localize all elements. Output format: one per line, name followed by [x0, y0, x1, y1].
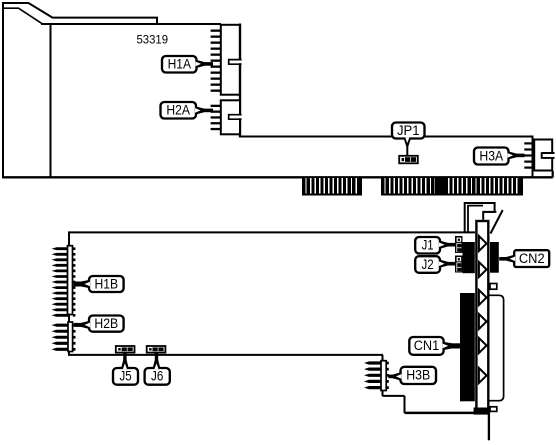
svg-text:CN2: CN2 [519, 251, 545, 266]
balloon J5 [113, 352, 138, 384]
top mounting tab [490, 284, 497, 290]
balloon H2B [74, 316, 124, 332]
balloon JP1 [392, 123, 425, 157]
connector H1A box [221, 24, 243, 138]
card edge fingers group 1 [302, 178, 362, 196]
balloon J2 [415, 256, 456, 273]
connector H3A box [534, 140, 555, 178]
svg-text:H2B: H2B [94, 316, 118, 331]
H3B pins [364, 361, 389, 389]
balloon H1A [162, 56, 213, 73]
balloon H1B [74, 276, 124, 292]
balloon CN2 [499, 250, 549, 267]
CN1 connector body [460, 293, 475, 401]
connector H2B body [68, 322, 73, 352]
connector H3B body [381, 361, 386, 391]
header J1 (3-pin with shunt) [455, 236, 463, 253]
bracket top tab [465, 203, 497, 233]
H1A pins [211, 30, 221, 92]
svg-text:J2: J2 [422, 257, 434, 272]
bracket column bottom bar [474, 408, 491, 415]
bracket cutout triangles [479, 236, 487, 383]
lower board outline [68, 232, 489, 413]
svg-text:H3A: H3A [479, 148, 503, 163]
card edge fingers group 2 [381, 178, 523, 196]
balloon H3B [388, 367, 436, 384]
H1B pins [52, 247, 76, 316]
top board outline with bracket [2, 2, 553, 177]
svg-text:J6: J6 [151, 369, 163, 384]
svg-text:H1B: H1B [95, 276, 119, 291]
balloon CN1 [409, 337, 460, 355]
balloon H2A [161, 102, 214, 119]
jumper J6 [147, 346, 166, 353]
svg-text:CN1: CN1 [414, 338, 440, 353]
header J2 (3-pin with shunt) [455, 256, 463, 273]
svg-text:H1A: H1A [168, 57, 191, 72]
balloon J1 [415, 237, 456, 254]
bracket below-board stem [488, 414, 490, 440]
CN2 connector body (right of bracket) [490, 242, 499, 273]
connector H2A box [221, 100, 243, 134]
bracket column [476, 221, 488, 413]
CN2 connector body (left of bracket) [463, 242, 475, 273]
balloon H3A [474, 148, 525, 165]
bracket diagonal [491, 210, 503, 234]
svg-text:JP1: JP1 [397, 123, 420, 138]
H2A pins [211, 105, 221, 131]
jumper JP1 [399, 156, 418, 164]
svg-text:J1: J1 [422, 238, 434, 253]
bottom mounting tab [490, 407, 497, 412]
connector H1B body [68, 246, 73, 315]
H3A pins [524, 142, 534, 168]
svg-text:J5: J5 [120, 369, 132, 384]
svg-text:53319: 53319 [137, 35, 169, 47]
balloon J6 [145, 352, 170, 384]
svg-text:H3B: H3B [406, 368, 430, 383]
jumper J5 [116, 346, 135, 353]
H2B pins [52, 324, 76, 351]
DB shell [490, 295, 504, 400]
svg-text:H2A: H2A [166, 103, 190, 118]
